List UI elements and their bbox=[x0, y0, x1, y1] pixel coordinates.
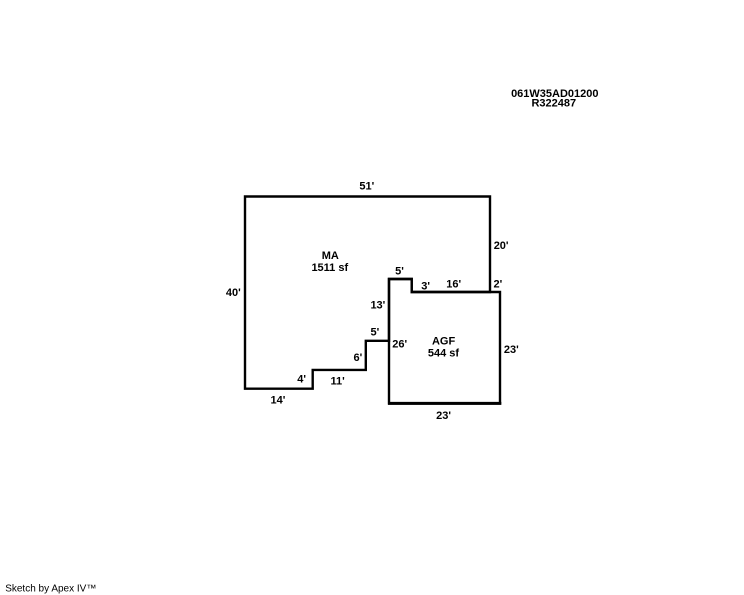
outline MA (main area 1511 sf) bbox=[245, 197, 490, 389]
svg-text:6': 6' bbox=[354, 352, 363, 364]
svg-text:AGF: AGF bbox=[432, 335, 456, 347]
wall AGF bottom (thicker) bbox=[388, 402, 501, 405]
svg-text:5': 5' bbox=[371, 326, 380, 338]
svg-text:20': 20' bbox=[494, 240, 509, 252]
svg-text:14': 14' bbox=[271, 395, 286, 407]
svg-text:40': 40' bbox=[226, 287, 241, 299]
svg-text:MA: MA bbox=[322, 250, 339, 262]
svg-text:23': 23' bbox=[504, 344, 519, 356]
svg-text:51': 51' bbox=[359, 181, 374, 193]
svg-text:1511 sf: 1511 sf bbox=[311, 262, 348, 274]
svg-text:R322487: R322487 bbox=[531, 98, 576, 110]
svg-text:Sketch by Apex IV™: Sketch by Apex IV™ bbox=[5, 584, 96, 595]
svg-text:4': 4' bbox=[297, 374, 306, 386]
svg-text:544 sf: 544 sf bbox=[428, 348, 460, 360]
svg-text:16': 16' bbox=[446, 279, 461, 291]
svg-text:26': 26' bbox=[392, 338, 407, 350]
svg-text:3': 3' bbox=[421, 281, 430, 293]
outline AGF (attached garage 544 sf) bbox=[389, 279, 500, 403]
svg-text:23': 23' bbox=[436, 410, 451, 422]
svg-text:11': 11' bbox=[331, 375, 346, 387]
svg-text:5': 5' bbox=[395, 266, 404, 278]
svg-text:13': 13' bbox=[370, 300, 385, 312]
svg-text:2': 2' bbox=[494, 278, 503, 290]
